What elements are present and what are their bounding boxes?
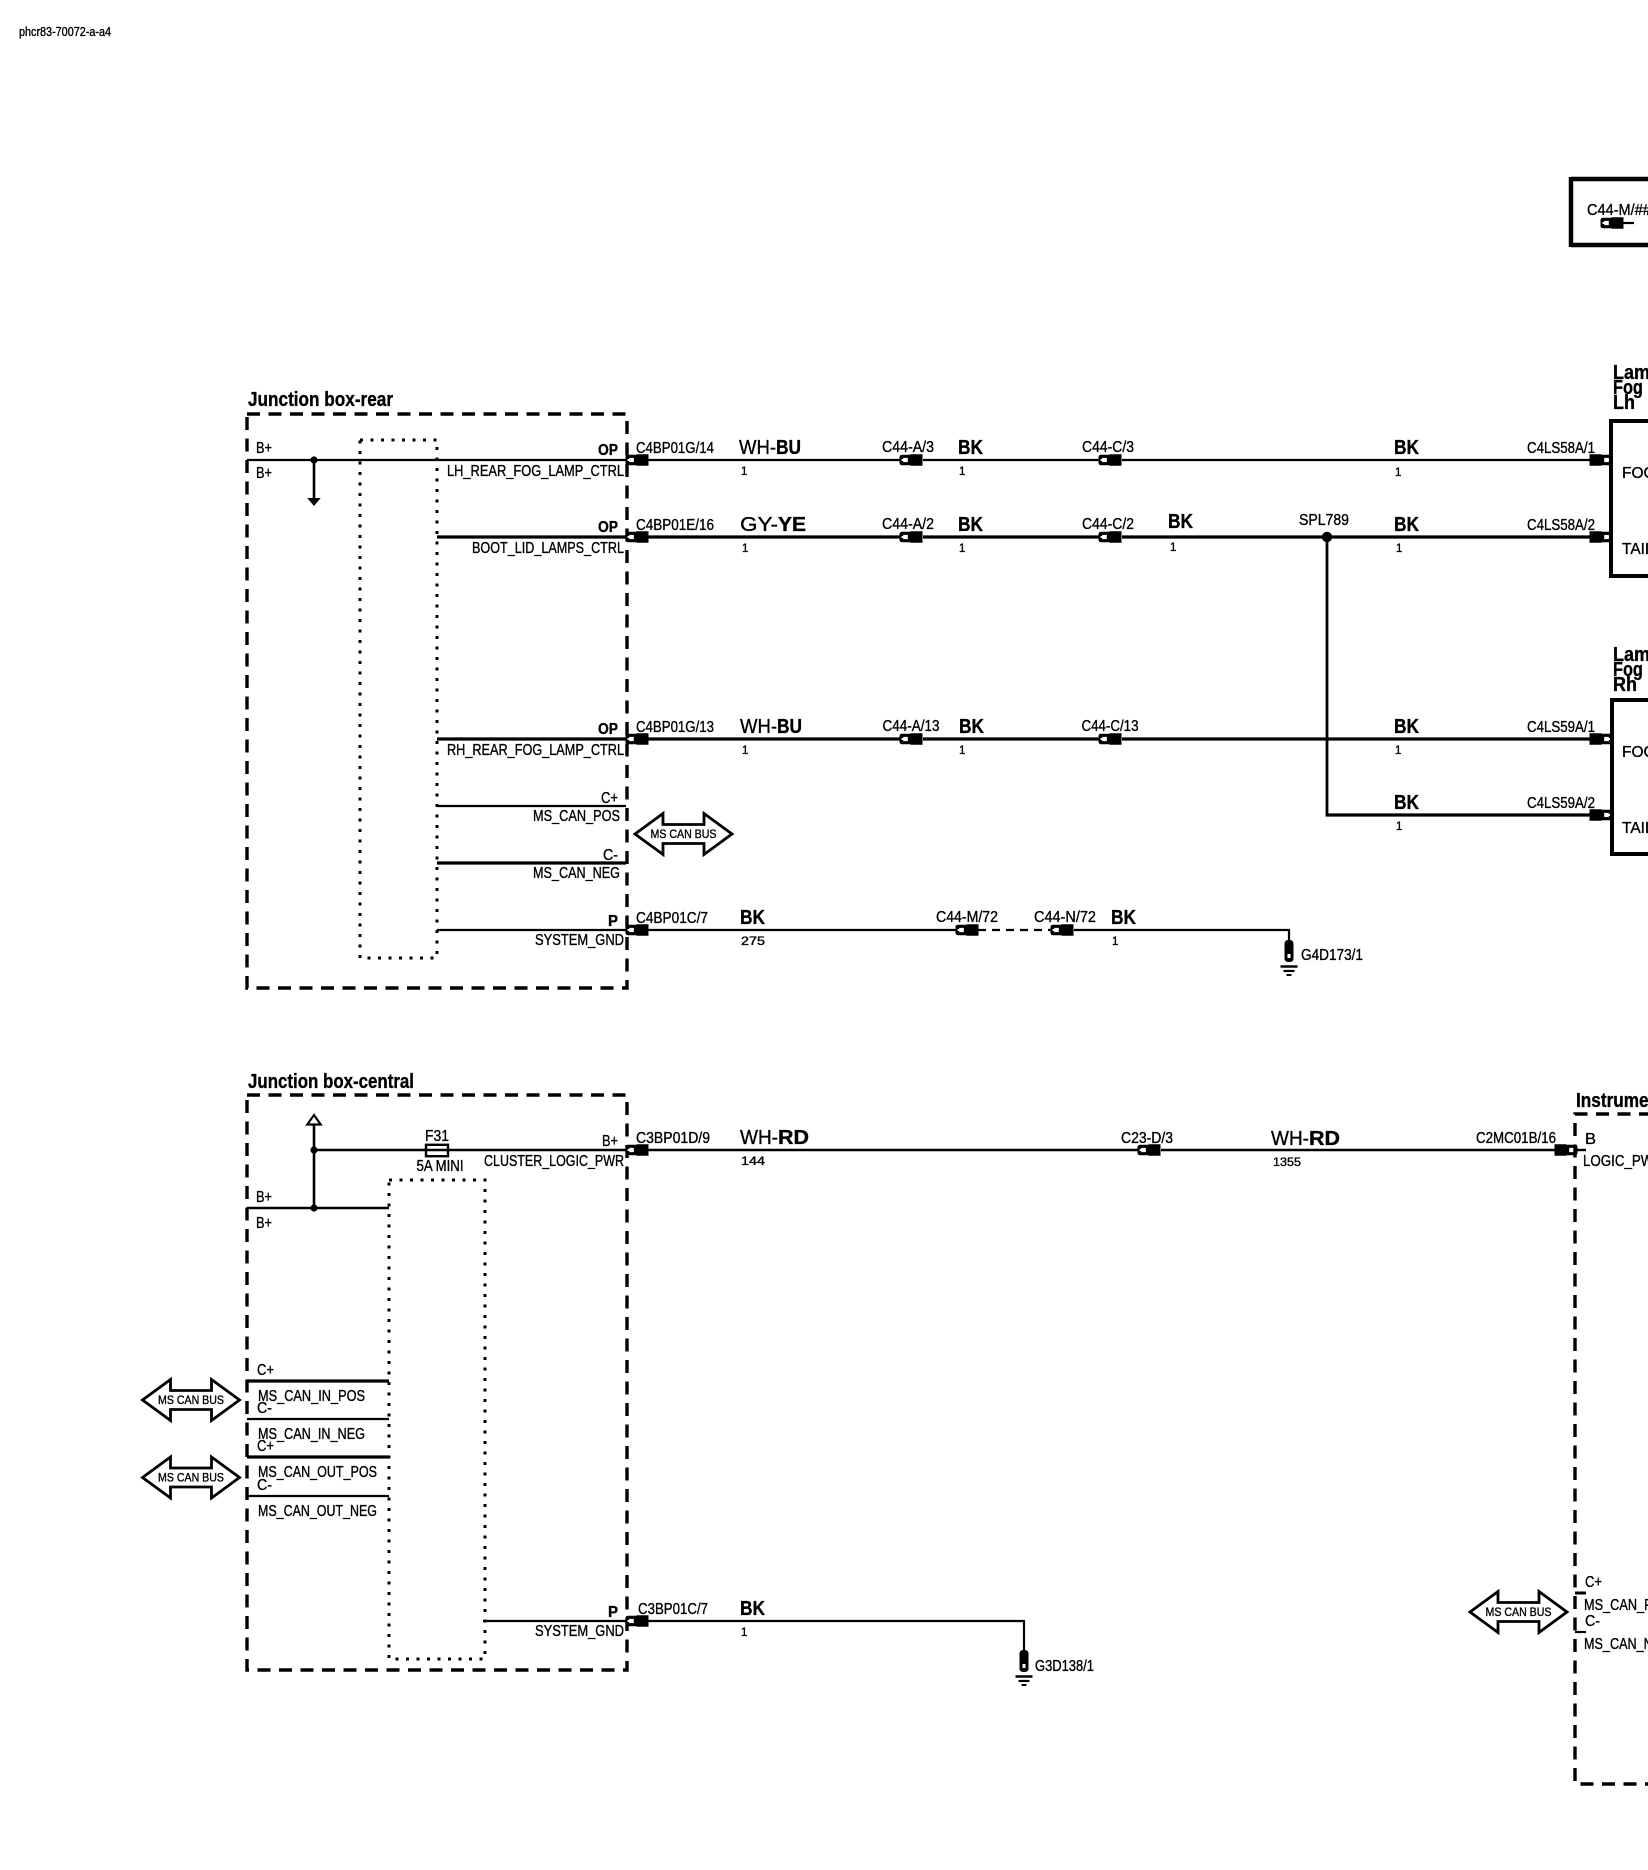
svg-text:BK: BK — [1168, 511, 1193, 533]
wire MS_CAN_NEG — [437, 847, 626, 882]
svg-text:BK: BK — [958, 437, 983, 459]
wire BK circuit 1 — [923, 514, 1100, 555]
wire MS_CAN_OUT_POS — [247, 1438, 389, 1481]
wire B+ internal — [247, 1189, 389, 1232]
pin B LOGIC_PWR inside instrument cluster — [1575, 1131, 1648, 1170]
connector C4BP01G/13 — [626, 719, 715, 745]
svg-text:WH-RD: WH-RD — [1271, 1128, 1340, 1150]
component box Lamp Fog Lh — [1611, 362, 1648, 576]
svg-text:SPL789: SPL789 — [1299, 512, 1349, 529]
connector C4BP01E/16 — [626, 517, 715, 543]
junction node B+ feed — [310, 1204, 317, 1211]
svg-text:FOG_L: FOG_L — [1622, 465, 1648, 482]
svg-text:C4LS59A/1: C4LS59A/1 — [1527, 719, 1595, 736]
svg-text:C44-M/72: C44-M/72 — [936, 909, 998, 926]
wire MS_CAN_OUT_NEG — [247, 1477, 389, 1520]
wire BK circuit 1 to ground — [648, 1598, 1025, 1651]
connector C23-D/3 — [1121, 1130, 1173, 1156]
svg-text:C3BP01D/9: C3BP01D/9 — [636, 1130, 710, 1147]
svg-text:WH-BU: WH-BU — [739, 437, 801, 459]
svg-text:Lh: Lh — [1613, 392, 1635, 414]
svg-text:WH-BU: WH-BU — [740, 716, 802, 738]
junction box-central inner dotted block — [389, 1180, 485, 1659]
wire BOOT_LID_LAMPS_CTRL inside junction box-rear — [437, 519, 627, 557]
svg-text:C4BP01C/7: C4BP01C/7 — [636, 910, 708, 927]
connector detail box C44-M — [1571, 177, 1648, 247]
svg-text:1: 1 — [1396, 821, 1402, 833]
wire WH-BU circuit 1 — [648, 437, 901, 478]
MS CAN BUS arrow (in) — [143, 1380, 240, 1421]
svg-text:144: 144 — [741, 1156, 766, 1168]
svg-text:C+: C+ — [257, 1438, 274, 1455]
svg-text:FOG_L: FOG_L — [1622, 744, 1648, 761]
connector C44-A/2 — [882, 516, 934, 543]
svg-text:OP: OP — [598, 519, 618, 536]
wire MS_CAN_IN_NEG — [247, 1400, 389, 1443]
svg-text:C44-A/2: C44-A/2 — [882, 516, 934, 533]
svg-text:MS_CAN_IN_POS: MS_CAN_IN_POS — [258, 1388, 365, 1405]
svg-text:MS_CAN_POS: MS_CAN_POS — [533, 808, 620, 825]
svg-text:Junction box-central: Junction box-central — [248, 1071, 414, 1093]
wire BK circuit 1 to lamp Rh — [1122, 716, 1590, 757]
svg-text:B+: B+ — [256, 440, 272, 457]
connector C44-C/2 — [1082, 516, 1134, 543]
svg-text:C4BP01E/16: C4BP01E/16 — [636, 517, 714, 534]
svg-text:BK: BK — [1394, 716, 1419, 738]
MS CAN BUS arrow (out) — [143, 1457, 240, 1498]
svg-text:5A MINI: 5A MINI — [417, 1158, 464, 1175]
svg-text:MS_CAN_IN_NEG: MS_CAN_IN_NEG — [258, 1426, 365, 1443]
wire BK circuit 275 — [648, 907, 957, 948]
svg-text:1: 1 — [742, 543, 748, 555]
svg-text:C-: C- — [603, 847, 618, 864]
svg-text:C-: C- — [257, 1477, 272, 1494]
ground G4D173/1 — [1281, 940, 1364, 975]
connector C4LS59A/1 — [1527, 719, 1613, 745]
svg-text:GY-YE: GY-YE — [740, 514, 806, 536]
junction node on B+ wire — [310, 456, 317, 463]
svg-text:1: 1 — [959, 745, 965, 757]
connector C44-A/3 — [882, 439, 934, 466]
svg-text:1: 1 — [742, 745, 748, 757]
svg-text:C44-A/3: C44-A/3 — [882, 439, 934, 456]
svg-text:C44-C/3: C44-C/3 — [1082, 439, 1134, 456]
svg-text:MS_CAN_POS: MS_CAN_POS — [1584, 1597, 1648, 1614]
svg-text:C44-M/###: C44-M/### — [1587, 202, 1648, 219]
svg-text:C44-C/2: C44-C/2 — [1082, 516, 1134, 533]
wire B+ / LH_REAR_FOG_LAMP_CTRL inside junction box-rear — [247, 440, 627, 482]
svg-text:C3BP01C/7: C3BP01C/7 — [638, 1601, 708, 1618]
svg-text:phcr83-70072-a-a4: phcr83-70072-a-a4 — [19, 25, 111, 39]
wire from splice SPL789 down and right to lamp Rh tail — [1326, 537, 1590, 833]
wire SYSTEM_GND inside junction box-central — [483, 1604, 627, 1640]
svg-text:C4LS58A/1: C4LS58A/1 — [1527, 440, 1595, 457]
splice SPL789 — [1299, 512, 1349, 542]
svg-text:WH-RD: WH-RD — [740, 1127, 809, 1149]
B+ up arrow — [307, 1115, 320, 1208]
component box Lamp Fog Rh — [1612, 644, 1648, 854]
svg-text:BK: BK — [1394, 514, 1419, 536]
svg-text:OP: OP — [598, 442, 618, 459]
svg-text:MS_CAN_OUT_POS: MS_CAN_OUT_POS — [258, 1464, 377, 1481]
svg-text:B+: B+ — [256, 1189, 272, 1206]
wire WH-RD circuit 1355 — [1161, 1128, 1558, 1169]
instrument cluster box outline — [1575, 1090, 1648, 1784]
connector C3BP01D/9 — [626, 1130, 711, 1156]
wire RH_REAR_FOG_LAMP_CTRL inside junction box-rear — [437, 721, 627, 759]
wire BK circuit 1 to splice — [1122, 511, 1327, 554]
svg-text:1: 1 — [741, 466, 747, 478]
connector C44-N/72 — [1034, 909, 1096, 936]
connector C4LS58A/1 — [1527, 440, 1613, 466]
svg-text:1: 1 — [741, 1627, 747, 1639]
svg-text:BK: BK — [1111, 907, 1136, 929]
svg-text:TAIL_L: TAIL_L — [1622, 541, 1648, 558]
svg-text:C-: C- — [1585, 1613, 1600, 1630]
svg-text:G3D138/1: G3D138/1 — [1035, 1658, 1094, 1675]
wire MS_CAN_IN_POS — [247, 1362, 389, 1405]
svg-text:MS CAN BUS: MS CAN BUS — [158, 1393, 224, 1407]
svg-text:SYSTEM_GND: SYSTEM_GND — [535, 1623, 624, 1640]
svg-text:C2MC01B/16: C2MC01B/16 — [1476, 1130, 1556, 1147]
svg-text:LOGIC_PWR: LOGIC_PWR — [1583, 1153, 1648, 1170]
connector C44-C/13 — [1082, 718, 1139, 745]
junction node fuse feed — [310, 1146, 317, 1153]
svg-text:C4BP01G/13: C4BP01G/13 — [636, 719, 714, 736]
svg-text:C-: C- — [257, 1400, 272, 1417]
svg-text:C4LS58A/2: C4LS58A/2 — [1527, 517, 1595, 534]
svg-text:1: 1 — [959, 543, 965, 555]
svg-text:MS CAN BUS: MS CAN BUS — [651, 827, 717, 841]
svg-text:BK: BK — [1394, 437, 1419, 459]
MS CAN BUS arrow (instrument cluster) — [1470, 1592, 1567, 1633]
svg-text:1: 1 — [1396, 543, 1402, 555]
svg-text:C44-C/13: C44-C/13 — [1082, 718, 1139, 735]
svg-text:BOOT_LID_LAMPS_CTRL: BOOT_LID_LAMPS_CTRL — [472, 540, 624, 557]
connector C44-M/72 — [936, 909, 998, 936]
svg-text:OP: OP — [598, 721, 618, 738]
svg-text:B+: B+ — [602, 1133, 618, 1150]
wire MS_CAN_POS — [437, 790, 626, 825]
svg-text:1: 1 — [1112, 936, 1118, 948]
svg-text:Rh: Rh — [1613, 674, 1637, 696]
connector C4LS59A/2 — [1527, 795, 1613, 821]
wire BK circuit 1 — [923, 437, 1100, 478]
svg-text:BK: BK — [740, 907, 765, 929]
svg-text:C4LS59A/2: C4LS59A/2 — [1527, 795, 1595, 812]
svg-text:B+: B+ — [256, 465, 272, 482]
svg-text:C44-N/72: C44-N/72 — [1034, 909, 1096, 926]
B+ down arrow — [307, 460, 320, 506]
wire BK circuit 1 to lamp — [1122, 437, 1590, 479]
wire WH-BU circuit 1 — [648, 716, 901, 757]
svg-text:P: P — [608, 913, 618, 930]
svg-text:B: B — [1585, 1131, 1596, 1148]
svg-text:P: P — [608, 1604, 618, 1621]
wire WH-RD circuit 144 — [648, 1127, 1139, 1168]
svg-text:MS_CAN_NEG: MS_CAN_NEG — [533, 865, 620, 882]
svg-text:SYSTEM_GND: SYSTEM_GND — [535, 932, 624, 949]
svg-text:BK: BK — [959, 716, 984, 738]
wire BK circuit 1 — [923, 716, 1100, 757]
junction box-rear outline — [247, 389, 627, 988]
svg-text:C44-A/13: C44-A/13 — [883, 718, 940, 735]
MS CAN BUS arrow (junction box-rear) — [635, 814, 732, 855]
svg-text:C23-D/3: C23-D/3 — [1121, 1130, 1173, 1147]
connector C44-A/13 — [883, 718, 940, 745]
junction box-rear inner dotted block — [360, 440, 437, 958]
svg-text:F31: F31 — [425, 1128, 449, 1145]
connector C4BP01G/14 — [626, 440, 715, 466]
svg-text:G4D173/1: G4D173/1 — [1301, 947, 1363, 964]
wire CLUSTER_LOGIC_PWR with fuse — [314, 1133, 627, 1170]
dashed harness jumper wire — [978, 929, 1052, 931]
connector C4LS58A/2 — [1527, 517, 1613, 543]
svg-text:LH_REAR_FOG_LAMP_CTRL: LH_REAR_FOG_LAMP_CTRL — [447, 463, 624, 480]
svg-text:C4BP01G/14: C4BP01G/14 — [636, 440, 714, 457]
connector C3BP01C/7 — [626, 1601, 709, 1627]
svg-text:BK: BK — [1394, 792, 1419, 814]
connector C4BP01C/7 — [626, 910, 709, 936]
svg-text:BK: BK — [958, 514, 983, 536]
connector C2MC01B/16 — [1476, 1130, 1578, 1156]
svg-text:Instrument cluster: Instrument cluster — [1576, 1090, 1648, 1112]
pin C- MS_CAN_NEG inside instrument cluster — [1575, 1613, 1648, 1653]
wire BK circuit 1 to ground — [1074, 907, 1290, 948]
svg-text:MS CAN BUS: MS CAN BUS — [158, 1471, 224, 1485]
svg-text:1: 1 — [1395, 467, 1401, 479]
connector C44-C/3 — [1082, 439, 1134, 466]
wire SYSTEM_GND inside junction box-rear — [437, 913, 627, 949]
svg-text:MS_CAN_OUT_NEG: MS_CAN_OUT_NEG — [258, 1503, 377, 1520]
svg-text:275: 275 — [741, 936, 765, 948]
svg-text:1: 1 — [959, 466, 965, 478]
svg-text:MS CAN BUS: MS CAN BUS — [1486, 1605, 1552, 1619]
wire GY-YE circuit 1 — [648, 514, 901, 555]
pin C+ MS_CAN_POS inside instrument cluster — [1575, 1574, 1648, 1614]
wire BK circuit 1 to lamp Lh tail — [1327, 514, 1590, 555]
svg-text:1: 1 — [1170, 542, 1176, 554]
svg-text:B+: B+ — [256, 1215, 272, 1232]
svg-text:C+: C+ — [1585, 1574, 1602, 1591]
ground G3D138/1 — [1016, 1650, 1095, 1685]
svg-text:1355: 1355 — [1273, 1157, 1301, 1169]
svg-text:Junction box-rear: Junction box-rear — [248, 389, 393, 411]
svg-text:1: 1 — [1395, 745, 1401, 757]
svg-text:C+: C+ — [257, 1362, 274, 1379]
svg-text:RH_REAR_FOG_LAMP_CTRL: RH_REAR_FOG_LAMP_CTRL — [447, 742, 624, 759]
svg-text:C+: C+ — [601, 790, 618, 807]
svg-text:MS_CAN_NEG: MS_CAN_NEG — [1584, 1636, 1648, 1653]
svg-text:BK: BK — [740, 1598, 765, 1620]
fuse F31 5A MINI — [417, 1128, 464, 1175]
svg-text:CLUSTER_LOGIC_PWR: CLUSTER_LOGIC_PWR — [484, 1153, 624, 1170]
junction box-central outline — [247, 1071, 627, 1670]
svg-text:TAIL_L: TAIL_L — [1622, 820, 1648, 837]
